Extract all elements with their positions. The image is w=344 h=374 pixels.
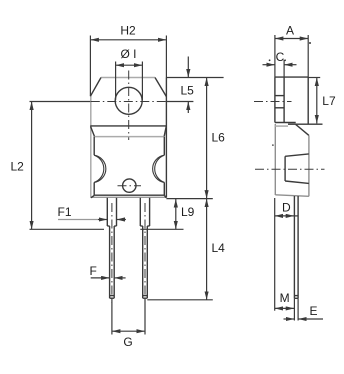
svg-text:C: C bbox=[276, 50, 285, 64]
svg-text:H2: H2 bbox=[120, 24, 136, 38]
svg-text:E: E bbox=[310, 304, 318, 318]
svg-text:A: A bbox=[286, 24, 294, 38]
svg-text:L5: L5 bbox=[181, 84, 195, 98]
svg-text:L9: L9 bbox=[181, 205, 195, 219]
svg-text:L4: L4 bbox=[212, 241, 226, 255]
svg-text:F: F bbox=[90, 264, 97, 278]
svg-text:G: G bbox=[123, 335, 132, 349]
svg-text:L6: L6 bbox=[212, 131, 226, 145]
svg-text:Ø I: Ø I bbox=[120, 47, 136, 61]
svg-text:L7: L7 bbox=[322, 94, 336, 108]
svg-text:M: M bbox=[280, 291, 290, 305]
svg-text:L2: L2 bbox=[11, 160, 25, 174]
svg-text:D: D bbox=[282, 201, 291, 215]
svg-text:F1: F1 bbox=[58, 205, 72, 219]
